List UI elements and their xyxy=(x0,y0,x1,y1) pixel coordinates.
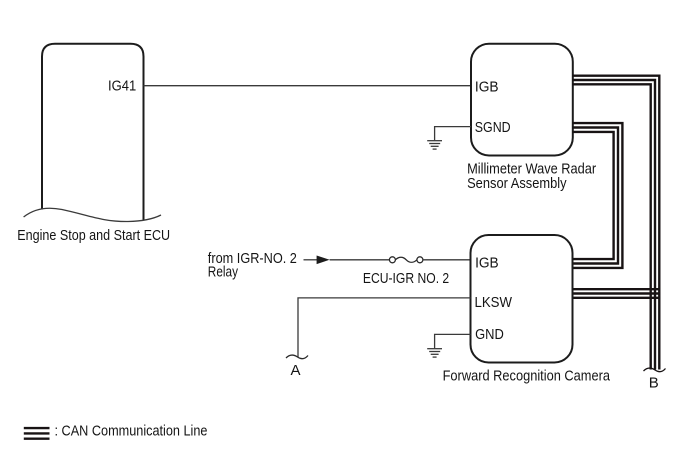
arrowhead xyxy=(317,256,330,265)
svg-text:LKSW: LKSW xyxy=(475,294,513,311)
svg-text:Relay: Relay xyxy=(208,264,239,281)
CAN bus 2: radar to camera (triple line loop) xyxy=(573,123,623,268)
label: Millimeter Wave Radar Sensor Assembly xyxy=(467,160,596,192)
svg-text:SGND: SGND xyxy=(475,119,511,136)
svg-text:GND: GND xyxy=(475,326,504,343)
svg-text:B: B xyxy=(649,375,659,392)
svg-text:Forward Recognition Camera: Forward Recognition Camera xyxy=(443,367,611,384)
camera box: Forward Recognition Camera xyxy=(471,235,573,363)
svg-text:IG41: IG41 xyxy=(108,77,136,94)
torn-edge wave at bottom of ECU box xyxy=(24,208,161,221)
wire SGND to ground xyxy=(435,127,471,141)
ECU box: Engine Stop and Start ECU (outline with torn bottom) xyxy=(42,44,144,221)
svg-text:Sensor Assembly: Sensor Assembly xyxy=(467,175,567,192)
svg-text:IGB: IGB xyxy=(475,79,499,96)
svg-text:IGB: IGB xyxy=(475,254,499,271)
ground symbol (camera GND) xyxy=(427,349,442,357)
wire GND to ground (camera) xyxy=(435,334,471,348)
CAN bus 1: radar IGB to connector B (triple line) xyxy=(573,76,660,370)
radar box: Millimeter Wave Radar Sensor Assembly xyxy=(471,44,573,156)
wire LKSW to node A xyxy=(298,298,471,357)
ground symbol (SGND) xyxy=(427,141,442,149)
svg-text:ECU-IGR NO. 2: ECU-IGR NO. 2 xyxy=(363,270,449,287)
label: from IGR-NO. 2 Relay xyxy=(208,250,297,281)
wire from relay (with arrow) xyxy=(304,259,318,261)
break wave at bottom of CAN bus (node B) xyxy=(644,368,666,372)
wire arrow to connector xyxy=(330,259,390,261)
break wave at node A xyxy=(286,355,308,359)
wire IG41 to IGB (radar) xyxy=(144,85,472,87)
legend symbol: CAN triple line xyxy=(24,428,50,439)
svg-text:Engine Stop and Start ECU: Engine Stop and Start ECU xyxy=(17,227,170,244)
svg-text:: CAN Communication Line: : CAN Communication Line xyxy=(55,423,208,440)
CAN bus 3: camera to bus B (triple line) xyxy=(573,289,661,298)
svg-text:A: A xyxy=(290,362,300,379)
wire connector to IGB (camera) xyxy=(423,259,471,261)
connector ECU-IGR NO. 2 (circle-wave-circle) xyxy=(389,257,423,263)
